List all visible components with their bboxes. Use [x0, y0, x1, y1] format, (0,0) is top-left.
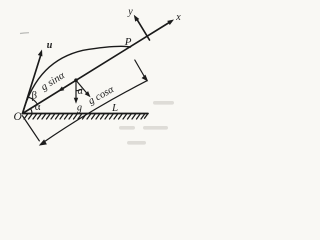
arrowhead lower-left of long arrow: [39, 139, 47, 145]
svg-text:α: α: [78, 86, 84, 97]
g cos alpha arrow: [76, 80, 87, 93]
alpha arc at dot: [76, 89, 82, 91]
g sin alpha arrow: [61, 80, 76, 90]
beta arc at O: [29, 97, 38, 104]
below-ground segment from O: [23, 116, 40, 141]
faint smudge top-left: [20, 32, 29, 35]
long arrow parallel to incline below ground: [41, 81, 147, 144]
svg-text:u: u: [47, 40, 53, 51]
incline line (x axis): [23, 22, 171, 114]
x axis arrowhead: [167, 20, 174, 26]
ground line: [23, 113, 149, 115]
g arrow: [75, 80, 77, 100]
u vector: [23, 54, 42, 114]
alpha arc at O: [31, 109, 32, 114]
svg-text:x: x: [175, 12, 181, 23]
svg-text:β: β: [32, 89, 38, 101]
ground hatching: [24, 114, 148, 120]
perpendicular short arrow near P: [135, 60, 145, 78]
y axis arrowhead: [134, 15, 140, 22]
faint print bleed bottom-right: [119, 101, 174, 145]
svg-text:α: α: [35, 101, 41, 113]
svg-text:g: g: [77, 102, 82, 113]
svg-text:y: y: [127, 6, 133, 17]
u arrowhead: [38, 50, 43, 57]
point dot on incline: [74, 78, 78, 82]
svg-text:L: L: [111, 102, 118, 114]
svg-text:P: P: [124, 36, 132, 48]
y axis: [136, 18, 149, 40]
trajectory curve: [23, 46, 131, 113]
svg-text:O: O: [14, 111, 23, 123]
